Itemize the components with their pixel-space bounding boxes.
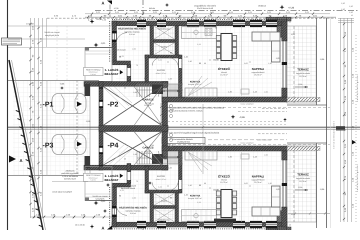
lower living west wall (179, 151, 183, 193)
fedett terasz box upper (84, 68, 104, 76)
svg-text:fagyálló burkolat: fagyálló burkolat (296, 72, 310, 75)
stair up-line lower (137, 157, 183, 159)
svg-text:17 x 17,6 = 3,00: 17 x 17,6 = 3,00 (167, 146, 180, 149)
section marker A bottom (107, 226, 112, 230)
east boundary line (326, 18, 328, 228)
lower stair arrow (164, 156, 180, 158)
section line at A marker (109, 5, 111, 18)
level star sw (90, 224, 94, 228)
svg-text:FEDETT TERASZ: FEDETT TERASZ (86, 68, 101, 71)
svg-text:L a k ó é p ü l e t é s g: L a k ó é p ü l e t é s g a r á z s (356, 164, 359, 191)
upper entry door arrow (120, 70, 123, 74)
svg-text:1,5%: 1,5% (298, 83, 303, 86)
lower bath divider (154, 206, 176, 209)
garage door marks west (99, 87, 103, 89)
svg-text:3,05: 3,05 (244, 182, 248, 185)
center property line 2 (8, 128, 360, 130)
lower sideboard dark (214, 219, 236, 222)
section marker A left (9, 156, 16, 163)
left dimension lines (30, 18, 32, 218)
lower stair block (152, 154, 163, 164)
garage west wall (99, 82, 103, 171)
parking row bottom line (8, 175, 99, 177)
svg-text:1,5%: 1,5% (298, 186, 303, 189)
small star mid terrace (283, 118, 287, 122)
upper unit floor grid (116, 24, 282, 97)
svg-text:±0,00: ±0,00 (213, 59, 219, 62)
svg-text:3,05: 3,05 (244, 62, 248, 65)
lower unit floor grid (116, 151, 282, 224)
lower sink (194, 214, 198, 218)
garage north wall (99, 82, 168, 87)
svg-text:1,50: 1,50 (349, 11, 353, 14)
south wall windows (137, 222, 146, 227)
walk line upper 2 (8, 38, 85, 40)
svg-text:90: 90 (170, 52, 172, 55)
upper unit east wall upper part (282, 21, 287, 41)
lower garage ramp lines (104, 143, 126, 163)
svg-text:+0,36: +0,36 (288, 6, 295, 9)
level star top mid (165, 3, 169, 7)
right small triangle marker (352, 140, 356, 144)
diagonal hatch ticks (16, 110, 20, 112)
svg-text:16x36 cm mosott: 16x36 cm mosott (92, 195, 108, 198)
svg-text:FEDETT TERASZ: FEDETT TERASZ (86, 174, 101, 177)
upper west window (113, 31, 117, 42)
svg-text:NAPPALI: NAPPALI (252, 67, 265, 71)
star bottom mid (148, 181, 152, 185)
svg-text:t e r v e z e t t l a k ó é: t e r v e z e t t l a k ó é p ü l e t (333, 121, 336, 148)
svg-text:30: 30 (124, 87, 126, 90)
middle dashed line lower (168, 144, 330, 146)
star bottom walk (103, 209, 107, 213)
upper garage X secondary (134, 86, 162, 125)
lower small-room X tiles (154, 209, 176, 223)
svg-text:1,40: 1,40 (184, 194, 188, 197)
south wall hatch extension upper (287, 97, 320, 101)
svg-text:TERASZ: TERASZ (297, 68, 309, 72)
small star parking (60, 86, 64, 90)
garage south wall (99, 165, 168, 170)
svg-text:16x36 cm mosott: 16x36 cm mosott (44, 31, 60, 34)
svg-text:zöldsávos: zöldsávos (66, 170, 75, 173)
upper terrace east edge (316, 18, 318, 105)
upper unit north wall (112, 21, 287, 26)
svg-text:±0,00: ±0,00 (213, 189, 219, 192)
svg-text:áttörés: áttörés (149, 7, 155, 10)
svg-text:2,26: 2,26 (132, 197, 136, 200)
svg-text:90: 90 (170, 197, 172, 200)
lower hall west wall (127, 164, 131, 184)
svg-text:1,35: 1,35 (268, 182, 272, 185)
svg-text:90: 90 (119, 195, 121, 198)
lower dining table (221, 190, 232, 218)
svg-text:HÁZTARTÁSI HELYISÉG: HÁZTARTÁSI HELYISÉG (118, 27, 146, 31)
parking bay east edge (89, 81, 91, 176)
svg-text:25,75 m²: 25,75 m² (254, 181, 262, 184)
lower living door opening (179, 180, 182, 189)
svg-text:4,43: 4,43 (253, 91, 257, 94)
svg-text:KONYHA: KONYHA (190, 195, 201, 198)
lower entry jog wall (112, 183, 131, 187)
garage west windows (100, 100, 103, 108)
vertical dim chain through band (202, 104, 204, 174)
svg-text:16,75 m²: 16,75 m² (299, 75, 307, 78)
right dimension lines (340, 18, 342, 222)
parking area paving grid (13, 81, 90, 175)
upper tv bench (241, 89, 249, 94)
svg-text:ÉTKEZŐ: ÉTKEZŐ (218, 67, 230, 71)
svg-text:ÉTKEZŐ: ÉTKEZŐ (218, 175, 230, 179)
walk line upper 3 (8, 47, 85, 49)
svg-text:ELŐTÉR: ELŐTÉR (157, 175, 166, 178)
szint dashed line (208, 139, 287, 141)
svg-text:1,40: 1,40 (188, 60, 192, 63)
dotted vertical 2 (66, 26, 68, 80)
svg-text:90: 90 (144, 77, 146, 80)
upper terrace dashed split (293, 26, 295, 103)
svg-text:KAMRA: KAMRA (161, 200, 168, 203)
svg-text:kiemelt, fűvel: kiemelt, fűvel (64, 178, 76, 181)
neighbour wall stub bottom-right (266, 227, 291, 230)
info box left (2, 38, 22, 45)
garage party wall (99, 126, 168, 132)
svg-text:2,26: 2,26 (132, 48, 136, 51)
upper L-sofa (252, 32, 280, 41)
level star nw (90, 19, 95, 24)
svg-text:A: A (102, 226, 105, 231)
svg-text:15,73 m²: 15,73 m² (220, 74, 228, 77)
garage east wall dim chain (160, 103, 162, 126)
stair up-line upper (137, 89, 183, 91)
svg-text:BEJÁRAT: BEJÁRAT (105, 178, 119, 182)
svg-text:60: 60 (215, 27, 217, 30)
svg-text:étkező: étkező (221, 179, 227, 182)
svg-text:KAMRA: KAMRA (161, 46, 168, 49)
parking row top line (8, 80, 99, 82)
upper terrace south line (287, 104, 327, 106)
upper living west wall (179, 55, 183, 97)
svg-text:1,35: 1,35 (268, 62, 272, 65)
lower east big window (282, 160, 284, 207)
svg-text:60: 60 (204, 182, 206, 185)
neighbour wall stub top-right (266, 17, 291, 21)
svg-text:háztartási helyiség: háztartási helyiség (126, 209, 141, 212)
lower entry door arrow (120, 174, 123, 178)
svg-text:L a k ó é p ü l e t é s g: L a k ó é p ü l e t é s g a r á z s (356, 74, 359, 101)
insulation dotted line west (109, 21, 111, 62)
top dim line 1 (85, 13, 330, 15)
svg-text:2,26: 2,26 (264, 154, 268, 157)
lower terrace east edge (316, 143, 318, 228)
svg-text:NAPPALI: NAPPALI (252, 175, 265, 179)
svg-text:A: A (102, 1, 105, 6)
tiny leader dots (168, 62, 169, 63)
svg-text:6,03 m²: 6,03 m² (130, 212, 136, 215)
upper porch south wall (84, 82, 99, 87)
lower terrace dashed split (293, 145, 295, 222)
svg-text:1,40: 1,40 (188, 184, 192, 187)
lower unit west wall (112, 187, 117, 227)
svg-text:-P2: -P2 (108, 102, 119, 109)
upper east big window (282, 41, 284, 88)
svg-text:FÜRDŐSZOBA: FÜRDŐSZOBA (158, 28, 171, 31)
svg-text:terasz szegéllyel: terasz szegéllyel (240, 141, 254, 144)
upper stair arrow (164, 90, 180, 92)
svg-text:fagyálló burkolat: fagyálló burkolat (296, 177, 310, 180)
svg-text:FÜRDŐSZOBA: FÜRDŐSZOBA (158, 219, 171, 222)
north wall hatch extension lower (287, 146, 320, 150)
svg-text:45: 45 (289, 224, 291, 227)
svg-text:6,03 m²: 6,03 m² (129, 33, 135, 36)
svg-text:1,21: 1,21 (197, 201, 201, 204)
lower dining chairs (216, 191, 220, 196)
svg-text:nappali+étkező: nappali+étkező (252, 179, 265, 182)
lower entry door opening (127, 172, 130, 180)
svg-text:60: 60 (204, 62, 206, 65)
svg-text:A: A (19, 158, 22, 163)
porch post upper (85, 48, 89, 51)
lower L-sofa (252, 207, 280, 216)
level star -0,36 middle (231, 115, 235, 119)
svg-text:18,70 m²: 18,70 m² (144, 152, 152, 155)
upper entry jog wall (112, 61, 131, 65)
upper small-room X tiles (154, 26, 176, 40)
svg-text:szegélyek: szegélyek (96, 198, 105, 201)
svg-text:KONYHA: KONYHA (190, 81, 201, 84)
upper garage X main (103, 86, 162, 125)
svg-text:75: 75 (136, 64, 138, 67)
svg-text:45 1,50 45: 45 1,50 45 (75, 224, 85, 227)
left short dim line (46, 18, 48, 47)
lower unit east wall lower part (282, 207, 287, 227)
upper porch outline (85, 48, 112, 82)
upper kitchen counter north (182, 27, 217, 39)
svg-text:előtér 5,27 m²: előtér 5,27 m² (156, 72, 167, 75)
lower partition v2 (175, 191, 179, 222)
svg-text:4,75: 4,75 (120, 55, 124, 58)
svg-text:-0,36: -0,36 (239, 116, 245, 119)
insulation dotted line north (112, 18, 287, 20)
svg-text:-0,21: -0,21 (101, 42, 107, 45)
svg-text:18x18 cm mosott: 18x18 cm mosott (120, 185, 136, 188)
upper partition v1 (150, 26, 154, 57)
lower hall west wall 2 (145, 166, 149, 193)
svg-text:BEJÁRAT: BEJÁRAT (105, 72, 119, 76)
upper stair block (152, 84, 163, 94)
svg-text:TERASZ: TERASZ (297, 173, 309, 177)
lower unit south wall (112, 222, 287, 227)
svg-text:60: 60 (199, 184, 201, 187)
walkway arrow lower (77, 142, 82, 147)
center property line 1 (8, 126, 360, 128)
car at P1 (52, 94, 86, 114)
car at P3 (52, 135, 86, 155)
lower terrace north line (287, 142, 327, 144)
svg-text:60: 60 (199, 62, 201, 65)
east boundary offset (330, 18, 332, 228)
hall symbols upper (169, 104, 172, 107)
svg-text:1,88: 1,88 (168, 167, 172, 170)
walkway arrow upper (77, 102, 82, 107)
lower terrace slope arrow (295, 189, 308, 191)
svg-text:1,35: 1,35 (228, 156, 232, 159)
svg-text:16,75 m²: 16,75 m² (299, 180, 307, 183)
walkway dotted line (76, 81, 78, 176)
right dotted line (355, 35, 357, 222)
svg-text:+0,36: +0,36 (113, 7, 119, 10)
svg-text:-P4: -P4 (108, 143, 119, 150)
svg-text:konyha 13,37 m²: konyha 13,37 m² (188, 197, 202, 200)
lower terrace dim line (288, 213, 330, 215)
section A-A line top (142, 0, 144, 19)
lower porch north wall (84, 165, 99, 170)
upper small rooms south wall (145, 55, 180, 58)
upper stair fan lines (188, 82, 212, 96)
lower door arcs (169, 181, 178, 190)
level star lower entry (106, 183, 110, 187)
svg-text:1,88: 1,88 (133, 153, 137, 156)
top dim line 2 (85, 16, 336, 18)
svg-text:1,21: 1,21 (197, 43, 201, 46)
living/dining divider line upper (241, 26, 243, 96)
svg-text:45: 45 (351, 14, 353, 17)
svg-text:30: 30 (124, 158, 126, 161)
upper garage ramp lines (104, 88, 126, 109)
svg-text:nappali+étkező: nappali+étkező (252, 71, 265, 74)
svg-text:2,26: 2,26 (264, 91, 268, 94)
svg-text:5,54: 5,54 (150, 103, 154, 106)
svg-text:4,75: 4,75 (120, 189, 124, 192)
upper dining chairs (216, 36, 220, 41)
upper stair treads (136, 84, 138, 97)
upper hall west wall 2 (145, 55, 149, 82)
pillar at porch corner lower (85, 156, 91, 168)
section line bottom stub (142, 229, 144, 230)
living/dining divider line lower (241, 152, 243, 222)
svg-text:-P3: -P3 (43, 143, 54, 150)
upper unit west wall (112, 21, 117, 62)
lower kitchen counter north (185, 151, 217, 160)
porch post lower (85, 198, 89, 201)
lower stair treads (136, 151, 138, 164)
upper door arcs (169, 58, 178, 67)
svg-text:szomszédos lakások: szomszédos lakások (174, 138, 192, 141)
svg-text:1,50: 1,50 (341, 2, 345, 5)
upper stove (205, 29, 212, 36)
svg-text:vasalt aljzat szegéllyel: vasalt aljzat szegéllyel (52, 191, 72, 194)
svg-text:ELŐTÉR: ELŐTÉR (157, 69, 166, 72)
lower west window (113, 206, 117, 217)
level star porch upper (94, 43, 99, 48)
upper bath divider (154, 40, 176, 43)
lower porch outline (85, 167, 112, 201)
lower stair fan lines (188, 152, 212, 166)
upper living door opening (179, 59, 182, 68)
svg-text:4,43: 4,43 (238, 98, 242, 101)
svg-text:17 x 17,6 = 3,00: 17 x 17,6 = 3,00 (167, 98, 180, 101)
svg-text:1,21: 1,21 (158, 59, 162, 62)
lower garage X main (103, 132, 162, 166)
upper dining table (221, 34, 232, 61)
svg-text:30x30 beton térkő: 30x30 beton térkő (197, 7, 214, 10)
top dashed dim line (47, 17, 336, 19)
svg-text:1,21: 1,21 (158, 186, 162, 189)
lower tv bench (241, 154, 249, 159)
section marker A top (107, 1, 112, 5)
lower small rooms north wall (145, 190, 180, 193)
pillar at porch corner upper (85, 84, 91, 96)
svg-text:35x35 mosott: 35x35 mosott (114, 49, 126, 52)
svg-text:előtér 5,27 m²: előtér 5,27 m² (156, 178, 167, 181)
svg-text:terasz szegéllyel: terasz szegéllyel (240, 103, 254, 106)
svg-text:1,50: 1,50 (349, 5, 353, 8)
boxed annotation middle (162, 138, 205, 144)
fedett terasz box lower (84, 173, 104, 181)
svg-text:-P1: -P1 (43, 102, 54, 109)
parking bay divider (46, 81, 48, 176)
svg-text:1,88: 1,88 (133, 91, 137, 94)
svg-text:4,43: 4,43 (238, 147, 242, 150)
svg-text:parkolók egymástól: parkolók egymástól (61, 172, 79, 175)
middle leader dashes (262, 107, 287, 109)
level star +0,36 top right (280, 5, 285, 10)
insulation dotted line south (112, 228, 287, 230)
lower terrace grid (287, 145, 317, 222)
garage door opening upper (163, 88, 168, 97)
upper sink (194, 30, 198, 34)
svg-text:1,88: 1,88 (168, 78, 172, 81)
svg-text:garázs: garázs (145, 149, 151, 152)
svg-text:szegélyek járda: szegélyek járda (45, 34, 60, 37)
svg-text:HÁZTARTÁSI HELYISÉG: HÁZTARTÁSI HELYISÉG (119, 206, 147, 210)
svg-text:elválasztó fala: elválasztó fala (177, 141, 191, 144)
svg-text:-0,21: -0,21 (291, 33, 295, 36)
level star porch lower (94, 201, 99, 206)
svg-text:25,75 m²: 25,75 m² (254, 74, 262, 77)
north wall windows (137, 21, 146, 26)
upper partition v2 (175, 26, 179, 57)
lower garage X secondary (134, 132, 162, 166)
lower kitchen counter south (182, 210, 217, 222)
svg-text:90: 90 (144, 167, 146, 170)
svg-text:1,40: 1,40 (184, 56, 188, 59)
top dimension ticks (87, 16, 89, 18)
insulation dotted line west lower (109, 187, 111, 227)
hall symbols lower (169, 133, 172, 136)
svg-text:60: 60 (215, 218, 217, 221)
lower partition v1 (150, 191, 154, 222)
middle extra dash rows (168, 120, 287, 122)
upper unit east wall lower part (282, 88, 287, 97)
lower unit east wall upper part (282, 151, 287, 160)
svg-text:GARÁZS: GARÁZS (143, 98, 154, 102)
svg-text:15,73 m²: 15,73 m² (220, 181, 228, 184)
garage door opening lower (163, 159, 168, 168)
left frame line (7, 0, 9, 230)
garage east wall (162, 82, 168, 171)
right mid dark mark (336, 126, 345, 130)
svg-text:étkező: étkező (221, 71, 227, 74)
svg-text:5,54: 5,54 (150, 144, 154, 147)
upper terrace slope arrow (295, 86, 308, 88)
upper entry door opening (127, 68, 130, 76)
svg-text:1,50: 1,50 (341, 8, 345, 11)
top dash-dot line (95, 10, 358, 12)
upper terrace grid (287, 26, 317, 103)
svg-text:csapadékvíz elvezetés: csapadékvíz elvezetés (194, 4, 217, 7)
svg-text:1,35: 1,35 (228, 91, 232, 94)
